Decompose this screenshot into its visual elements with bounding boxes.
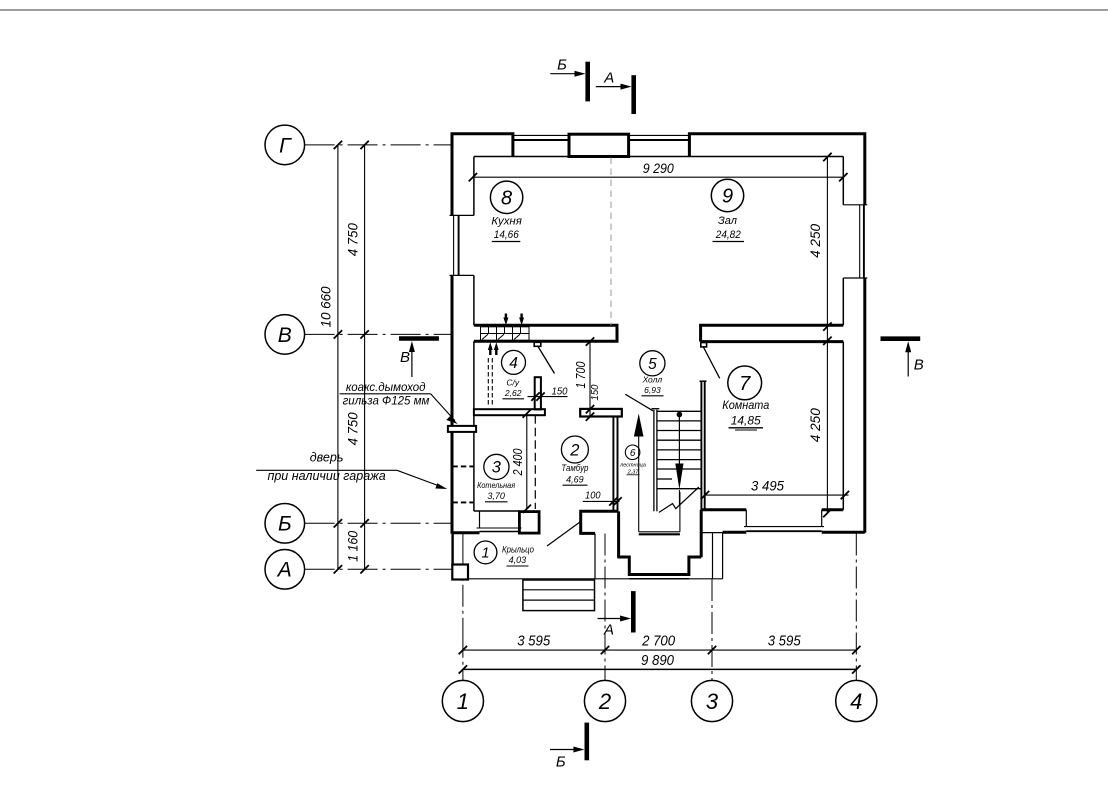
- stair bay left wall: [617, 511, 620, 557]
- svg-text:В: В: [914, 357, 924, 374]
- section mark А top: [596, 70, 634, 115]
- зал bottom wall band: [701, 325, 844, 341]
- dim 150 перегородка: [528, 385, 568, 401]
- svg-text:Кухня: Кухня: [491, 216, 522, 228]
- axis bubble 2: [584, 680, 625, 721]
- svg-text:1: 1: [481, 546, 489, 562]
- svg-text:лестница: лестница: [619, 462, 646, 468]
- крыльцо annotation line: [547, 522, 580, 546]
- svg-text:Котельная: Котельная: [477, 480, 515, 490]
- dimension line 9890 bottom: [463, 668, 856, 670]
- axis bubble 4: [836, 680, 877, 721]
- window W1 top wall: [513, 135, 569, 140]
- dashed door в гараж lower: [452, 501, 473, 503]
- svg-text:Г: Г: [279, 134, 292, 157]
- window зал right wall: [843, 205, 867, 278]
- svg-text:2 700: 2 700: [641, 634, 675, 650]
- top border line: [0, 9, 1108, 11]
- svg-text:4,03: 4,03: [509, 555, 527, 565]
- svg-text:14,66: 14,66: [494, 229, 520, 241]
- partition холл-комната7: [700, 381, 707, 510]
- callout дверь при наличии гаража: [256, 451, 447, 490]
- svg-text:Б: Б: [556, 754, 566, 771]
- svg-text:3: 3: [706, 689, 719, 714]
- section mark А bottom: [598, 591, 634, 638]
- axis line В: [305, 333, 452, 335]
- axis line 2 vertical: [604, 534, 606, 681]
- room 3 котельная label: [477, 454, 515, 502]
- svg-text:коакс.дымоход: коакс.дымоход: [346, 382, 426, 394]
- stair bay window sill lines: [629, 578, 689, 580]
- axis bubble Г: [265, 125, 305, 165]
- right wall inner edge mid: [842, 278, 844, 325]
- svg-text:1 160: 1 160: [346, 530, 361, 561]
- room 4 су label: [502, 350, 526, 398]
- porch steps: [523, 580, 595, 611]
- svg-text:В: В: [278, 324, 292, 347]
- svg-text:6: 6: [630, 448, 636, 459]
- wall stub тамбур top: [580, 409, 622, 417]
- svg-text:Зал: Зал: [718, 215, 737, 227]
- right wall outer edge lower: [863, 278, 866, 533]
- room 2 тамбур label: [561, 436, 588, 485]
- ticks left dim lines: [334, 141, 369, 574]
- room 8 кухня label: [490, 181, 522, 241]
- axis line Б: [305, 522, 452, 524]
- right wall inner edge room7: [842, 342, 844, 510]
- window kitchen left wall: [450, 215, 474, 275]
- axis bubble 1: [442, 680, 483, 721]
- dim 2400: [511, 409, 531, 513]
- axis line А: [305, 568, 453, 570]
- svg-text:В: В: [400, 349, 410, 366]
- svg-text:4 250: 4 250: [808, 223, 823, 257]
- Су partition 150: [535, 377, 541, 409]
- холл annotation line: [625, 394, 653, 411]
- svg-text:1: 1: [457, 689, 469, 714]
- svg-text:6,93: 6,93: [644, 385, 661, 395]
- section mark Б bottom: [550, 723, 587, 771]
- svg-text:А: А: [603, 70, 614, 87]
- porch bottom edge: [452, 578, 723, 580]
- room7 door leaf: [703, 347, 719, 378]
- section mark В left: [399, 339, 439, 378]
- left wall outer edge lower: [451, 275, 454, 533]
- room 9 зал label: [711, 179, 744, 241]
- stair treads: [657, 411, 701, 488]
- svg-text:Холл: Холл: [642, 375, 663, 385]
- porch pilaster: [452, 565, 468, 580]
- Су door leaf: [538, 347, 555, 374]
- outer wall top right section: [689, 134, 864, 205]
- svg-text:9 890: 9 890: [641, 653, 674, 669]
- dim 1700 и 150: [574, 337, 601, 421]
- svg-text:4: 4: [509, 355, 518, 372]
- room 7 комната label: [722, 366, 769, 430]
- axis bubble В: [265, 315, 305, 355]
- svg-text:150: 150: [589, 384, 601, 400]
- svg-text:2: 2: [598, 689, 611, 714]
- stair up arrow path: [634, 414, 680, 532]
- svg-text:100: 100: [585, 490, 601, 502]
- svg-text:4 750: 4 750: [346, 223, 361, 256]
- dimension line 3595/2700/3595 bottom: [463, 649, 856, 651]
- svg-text:Тамбур: Тамбур: [561, 463, 588, 473]
- section mark Б top: [550, 57, 587, 102]
- room 6 лестница label: [619, 445, 646, 475]
- top wall pier between windows: [569, 134, 629, 156]
- svg-text:при наличии гаража: при наличии гаража: [267, 469, 385, 483]
- svg-text:9 290: 9 290: [643, 160, 674, 176]
- axis bubble 3: [691, 680, 732, 721]
- dashed boundary котельная-тамбур: [534, 415, 536, 509]
- dim 3495: [701, 477, 849, 499]
- svg-text:4,69: 4,69: [566, 474, 584, 484]
- svg-text:Комната: Комната: [722, 398, 769, 412]
- svg-text:3 495: 3 495: [751, 477, 784, 493]
- vent arrows in Су: [488, 342, 499, 355]
- svg-text:4 750: 4 750: [346, 412, 361, 445]
- stair inner bay bottom: [639, 533, 680, 535]
- svg-text:А: А: [276, 559, 292, 582]
- left wall inner edge mid: [473, 275, 475, 325]
- outer wall top pier left: [452, 134, 513, 216]
- Су door pivot: [534, 342, 541, 346]
- dim 9290: [469, 160, 848, 182]
- svg-text:Б: Б: [278, 513, 292, 536]
- svg-text:С/у: С/у: [506, 377, 520, 387]
- dimension line 10660 vertical: [337, 145, 339, 569]
- vent arrows in kitchen: [503, 314, 524, 326]
- room7 bottom wall: [701, 510, 865, 532]
- svg-text:150: 150: [552, 385, 568, 397]
- svg-text:А: А: [603, 622, 614, 639]
- вентканалы duct strip in kitchen wall: [481, 327, 530, 341]
- axis bubble Б: [265, 504, 305, 544]
- interior top edge line: [474, 156, 843, 158]
- stair bay bottom wall: [617, 557, 701, 575]
- dim 4250 зал: [808, 153, 831, 517]
- тамбур exit step: [581, 511, 618, 579]
- дымоход sleeve гильза: [448, 426, 476, 432]
- svg-text:3: 3: [492, 459, 502, 477]
- axis line 1 vertical: [462, 534, 464, 681]
- svg-text:9: 9: [722, 186, 733, 208]
- dim 100 тамбур стена: [583, 490, 622, 506]
- svg-text:5: 5: [648, 356, 657, 373]
- callout коакс.дымоход: [340, 382, 458, 424]
- svg-text:Б: Б: [557, 57, 567, 74]
- step right of bay: [702, 533, 723, 579]
- условная dashed line кухня-зал: [610, 158, 612, 326]
- svg-text:дверь: дверь: [310, 451, 344, 465]
- svg-text:10 660: 10 660: [319, 286, 334, 327]
- left wall inner edge Cу-котельная: [473, 341, 475, 409]
- window W2 top wall: [629, 135, 690, 140]
- Су bottom wall: [474, 409, 545, 415]
- section mark В right: [881, 339, 924, 377]
- stair stringer: [652, 409, 660, 512]
- ticks bottom dim lines: [459, 646, 861, 674]
- svg-text:3 595: 3 595: [517, 634, 551, 650]
- right wall inner edge upper: [842, 157, 844, 205]
- room 5 холл label: [640, 351, 665, 396]
- dashed vent risers in Су: [487, 358, 489, 407]
- room 1 крыльцо label: [474, 541, 534, 566]
- axis line Г: [305, 144, 452, 146]
- svg-text:4 250: 4 250: [808, 408, 823, 442]
- svg-text:гильза Ф125 мм: гильза Ф125 мм: [343, 396, 430, 408]
- dashed door в гараж upper: [452, 465, 473, 467]
- svg-text:24,82: 24,82: [715, 229, 741, 241]
- svg-text:2 400: 2 400: [511, 448, 525, 476]
- svg-text:3 595: 3 595: [768, 634, 802, 650]
- svg-text:1 700: 1 700: [574, 361, 588, 388]
- room7 door pivot: [701, 343, 707, 347]
- dimension line 4750/4750/1160 vertical: [364, 145, 366, 569]
- stair bay right wall: [700, 510, 703, 557]
- тамбур right wall 100: [613, 417, 617, 512]
- porch left edge: [451, 534, 453, 566]
- left wall inner edge upper: [473, 157, 475, 216]
- stair break line: [659, 487, 699, 512]
- svg-text:Крыльцо: Крыльцо: [502, 545, 534, 555]
- axis bubble А: [265, 550, 305, 590]
- svg-text:4: 4: [850, 689, 862, 714]
- stair down arrow with dot: [675, 412, 683, 505]
- середина wall кухня-низ band: [474, 325, 617, 341]
- svg-text:2,62: 2,62: [504, 388, 522, 398]
- axis line 4 vertical: [855, 534, 857, 681]
- svg-text:7: 7: [739, 373, 751, 395]
- svg-text:14,85: 14,85: [731, 414, 761, 428]
- svg-text:8: 8: [501, 187, 512, 209]
- svg-text:3,70: 3,70: [487, 491, 505, 501]
- котельная bottom wall: [452, 511, 539, 533]
- axis line 3 vertical: [711, 579, 713, 680]
- svg-text:2: 2: [569, 442, 579, 460]
